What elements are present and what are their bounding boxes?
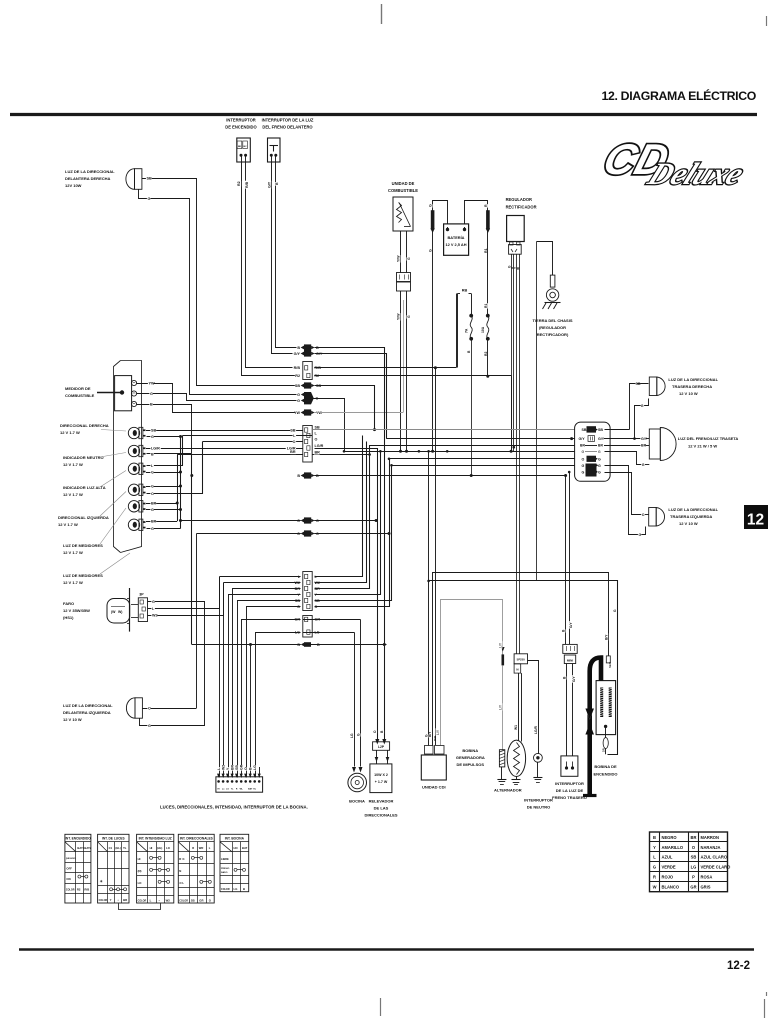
bracket joining HL columns	[119, 904, 161, 910]
wire G to coil ground	[429, 581, 618, 755]
svg-text:TRASERA IZQUIERDA: TRASERA IZQUIERDA	[670, 514, 712, 519]
svg-text:G: G	[151, 527, 154, 531]
wire O lamp4	[147, 442, 203, 494]
svg-text:B: B	[653, 835, 656, 840]
svg-text:(W: (W	[111, 610, 116, 614]
fuse F1 7A	[469, 314, 473, 318]
wire O row right	[314, 533, 389, 535]
wire B bottom row	[192, 644, 301, 646]
svg-text:INT. BOCINA: INT. BOCINA	[225, 837, 245, 841]
connector row B mid	[297, 473, 300, 478]
svg-text:G: G	[150, 392, 153, 396]
svg-text:DELANTERA IZQUIERDA: DELANTERA IZQUIERDA	[63, 710, 111, 715]
svg-text:G: G	[425, 734, 429, 737]
svg-text:R: R	[653, 875, 656, 880]
wire L faro	[148, 577, 220, 609]
svg-text:Y/W: Y/W	[397, 313, 401, 320]
alternator	[507, 740, 525, 776]
wire G meter	[137, 394, 297, 401]
wire O front left lamp	[142, 708, 196, 710]
svg-text:G: G	[653, 865, 656, 870]
svg-text:DEL FRENO DELANTERO: DEL FRENO DELANTERO	[262, 125, 313, 130]
wire LG/R lamp2	[146, 448, 303, 450]
wire Y row	[229, 595, 301, 778]
table int. de luces	[98, 834, 129, 903]
svg-text:FARO: FARO	[63, 601, 74, 606]
svg-text:G: G	[598, 457, 601, 461]
svg-text:W2: W2	[166, 898, 171, 902]
svg-text:G/Y: G/Y	[294, 352, 301, 356]
svg-text:+ 1.7 W: + 1.7 W	[375, 780, 388, 784]
alternator ground	[516, 776, 518, 779]
svg-text:RELEVADOR: RELEVADOR	[369, 799, 394, 804]
svg-text:DE NEUTRO: DE NEUTRO	[527, 805, 551, 810]
mini connector	[563, 644, 577, 653]
svg-text:GR: GR	[690, 885, 696, 890]
svg-text:BAT2: BAT2	[84, 846, 91, 850]
svg-text:12: 12	[747, 512, 764, 529]
wire Y/W fuel to G bus	[400, 291, 402, 451]
svg-text:LG: LG	[691, 865, 697, 870]
connector GR LG white	[303, 616, 312, 638]
wire G lamp5	[146, 509, 181, 511]
svg-text:O: O	[642, 513, 645, 517]
coil connector small	[606, 656, 610, 663]
svg-text:G: G	[429, 249, 433, 252]
footer rule	[19, 948, 754, 950]
wire battery negative to fuse G	[433, 201, 448, 224]
svg-text:L2P: L2P	[378, 745, 385, 749]
ignition coil bobina de encendido	[596, 681, 616, 735]
svg-text:VERDE: VERDE	[662, 865, 676, 870]
svg-text:AZUL: AZUL	[662, 855, 673, 860]
svg-text:W: W	[653, 885, 657, 890]
wire O row left to front left lamp	[197, 533, 301, 535]
svg-text:INDICADOR LUZ ALTA: INDICADOR LUZ ALTA	[63, 485, 106, 490]
svg-text:G/Y: G/Y	[641, 437, 648, 441]
svg-text:BR: BR	[290, 450, 296, 454]
svg-text:12 V 1.7 W: 12 V 1.7 W	[63, 550, 83, 555]
wire B row branch to connector	[249, 643, 252, 646]
wire regulator pin2 down	[513, 254, 515, 451]
svg-text:G: G	[641, 404, 644, 408]
svg-text:(REGULADOR: (REGULADOR	[539, 325, 566, 330]
svg-text:MEDIDOR DE: MEDIDOR DE	[65, 386, 91, 391]
svg-text:B: B	[151, 452, 154, 456]
svg-text:NADO: NADO	[221, 871, 228, 874]
svg-text:G/Y: G/Y	[569, 622, 573, 628]
BR collector vertical	[177, 455, 179, 522]
wire G row left to collector	[181, 520, 301, 522]
lamp tail luz del freno luz trasera	[649, 429, 660, 459]
bundle vertical v4 Y	[315, 452, 381, 595]
bundle vertical v7 O headlight	[315, 459, 390, 607]
bus G/Y to tail block	[386, 438, 574, 440]
svg-text:R2: R2	[295, 374, 300, 378]
wire L lamp3	[147, 436, 183, 466]
wire B meter	[137, 405, 192, 454]
svg-text:G: G	[148, 197, 151, 201]
headlight bulb faro	[107, 599, 130, 624]
svg-text:BC: BC	[244, 146, 248, 148]
wire B lamp2	[147, 453, 192, 455]
svg-text:BOBINA: BOBINA	[462, 748, 478, 753]
switch SW2 freno delantero	[268, 138, 281, 162]
wire SB rear right	[605, 429, 630, 431]
svg-text:DIRECCIONAL IZQUIERDA: DIRECCIONAL IZQUIERDA	[58, 515, 109, 520]
svg-text:INT. DIRECCIONALES: INT. DIRECCIONALES	[180, 837, 213, 841]
svg-text:LG/R: LG/R	[151, 446, 160, 450]
component bateria	[444, 224, 469, 255]
wire regulator pin3 down to 5P250	[516, 254, 518, 654]
svg-text:COLOR: COLOR	[99, 899, 108, 902]
svg-text:SB: SB	[691, 855, 697, 860]
svg-text:B: B	[150, 403, 153, 407]
wire B vertical to B row	[191, 454, 193, 645]
switch SW1 interruptor de encendido	[237, 138, 251, 162]
svg-text:W1: W1	[514, 725, 518, 730]
svg-text:LUZ DE LA DIRECCIONAL: LUZ DE LA DIRECCIONAL	[668, 377, 718, 382]
svg-text:10W X 2: 10W X 2	[374, 773, 388, 777]
svg-text:G: G	[148, 724, 151, 728]
svg-text:WR: WR	[199, 846, 204, 850]
wire BR lamp5	[146, 503, 177, 505]
bracket RB fuse feed	[462, 288, 468, 293]
svg-text:INT. DE LUCES: INT. DE LUCES	[102, 837, 125, 841]
svg-text:VERDE CLARO: VERDE CLARO	[701, 865, 732, 870]
svg-text:BLANCO: BLANCO	[662, 885, 680, 890]
wire SB lamp to box	[146, 430, 303, 432]
svg-text:R/B: R/B	[433, 735, 437, 741]
table int. encendido	[65, 834, 91, 903]
svg-text:G: G	[151, 471, 154, 475]
svg-text:INTERRUPTOR: INTERRUPTOR	[524, 798, 553, 803]
fuse link R (black bar)	[486, 210, 490, 229]
svg-text:(HL): (HL)	[157, 846, 162, 850]
svg-text:W2: W2	[221, 765, 225, 770]
wire W1 alternator	[518, 673, 520, 740]
svg-text:GRIS: GRIS	[701, 885, 711, 890]
svg-text:LUZ DE LA DIRECCIONAL: LUZ DE LA DIRECCIONAL	[668, 507, 718, 512]
wire B mini to switch	[566, 664, 568, 756]
wire G/Y to mini connector	[569, 472, 571, 644]
svg-text:B: B	[297, 346, 300, 350]
wire L row to box	[183, 435, 303, 437]
wire label R2	[237, 181, 241, 187]
wire G front left lamp	[140, 719, 205, 726]
wire B to rear down	[315, 348, 385, 645]
footer crop mark right	[764, 999, 766, 1018]
svg-text:12V 10W: 12V 10W	[65, 183, 82, 188]
wire SB row headlight	[238, 601, 301, 778]
block row G2	[581, 463, 584, 467]
meter pin G	[131, 391, 136, 396]
svg-text:O: O	[373, 730, 377, 733]
wire BR lamp6	[146, 521, 177, 523]
wire CDI B/Y to coil	[433, 573, 609, 746]
svg-text:LG: LG	[234, 887, 238, 891]
svg-text:G: G	[151, 435, 154, 439]
svg-text:12 V 35W/35W: 12 V 35W/35W	[63, 608, 90, 613]
svg-text:YW: YW	[149, 382, 156, 386]
wire LG/R to neutral switch	[528, 661, 539, 754]
svg-text:BR: BR	[123, 898, 127, 902]
bus O to tail block	[389, 458, 575, 460]
indicator lamp L6 luz de medidores 1	[128, 501, 139, 512]
svg-text:12 V 1.7 W: 12 V 1.7 W	[63, 462, 83, 467]
svg-text:HO: HO	[234, 846, 238, 850]
svg-text:SB: SB	[191, 898, 195, 902]
svg-text:AZUL CLARO: AZUL CLARO	[701, 855, 728, 860]
relay relevador de las direccionales	[370, 764, 392, 793]
wire label B	[274, 182, 278, 185]
svg-text:COLOR: COLOR	[138, 899, 147, 902]
svg-text:REGULADOR: REGULADOR	[506, 197, 532, 202]
svg-text:W2: W2	[152, 614, 158, 618]
wire B to mini connector	[565, 476, 567, 645]
svg-text:G: G	[598, 470, 601, 474]
connector row O mid	[297, 531, 300, 536]
page crop mark top right corner	[766, 16, 768, 26]
svg-text:BR: BR	[598, 443, 603, 447]
svg-text:C1: C1	[109, 846, 113, 850]
svg-text:BR: BR	[315, 451, 321, 455]
wire G merged right	[314, 399, 345, 452]
table int. bocina	[220, 834, 249, 891]
wire brake switch to connector G/Y	[272, 163, 297, 354]
indicator lamp L3 indicador neutro	[128, 445, 139, 456]
bundle vertical v3 BR	[315, 455, 370, 589]
svg-text:HI: HI	[150, 846, 153, 850]
wire B from 7A fuse down	[471, 339, 473, 476]
svg-text:DE LA LUZ DE: DE LA LUZ DE	[556, 788, 584, 793]
svg-text:O: O	[582, 457, 585, 461]
svg-text:R ⇒: R ⇒	[179, 857, 185, 861]
wire label G/Y	[267, 181, 271, 189]
svg-text:LG/R: LG/R	[315, 444, 324, 448]
svg-text:NEGRO: NEGRO	[662, 835, 678, 840]
svg-text:BOCINA: BOCINA	[349, 799, 365, 804]
wire G rear left	[605, 466, 646, 535]
wire G front right turn	[139, 190, 297, 395]
wire G lamp6	[147, 528, 181, 530]
indicator lamp L4 indicador luz alta	[128, 463, 139, 474]
pulse generator bobina generadora de impulsos	[499, 750, 504, 767]
page crop mark top center	[381, 4, 383, 24]
svg-text:INTERRUPTOR: INTERRUPTOR	[555, 781, 584, 786]
svg-text:R/B: R/B	[315, 366, 322, 370]
svg-text:B/Y: B/Y	[604, 634, 608, 640]
svg-text:12 V 10 W: 12 V 10 W	[679, 521, 698, 526]
svg-text:L: L	[150, 898, 152, 902]
svg-text:GR: GR	[240, 764, 244, 770]
svg-text:RB: RB	[462, 289, 468, 293]
svg-text:ENCENDIDO: ENCENDIDO	[593, 772, 617, 777]
svg-text:YW: YW	[294, 411, 300, 415]
svg-text:INTERRUPTOR: INTERRUPTOR	[226, 118, 256, 123]
connector block headlight white	[303, 572, 312, 611]
svg-text:INTERRUPTOR DE LA LUZ: INTERRUPTOR DE LA LUZ	[262, 118, 314, 123]
wire G tail	[605, 452, 642, 465]
wire G fuel unit down	[406, 231, 408, 273]
svg-text:10A: 10A	[481, 326, 485, 333]
wire G/Y to rear down	[315, 354, 387, 439]
wire O row to box	[203, 441, 303, 443]
svg-text:12 V 1.7 W: 12 V 1.7 W	[58, 522, 78, 527]
wire LG row	[303, 632, 355, 634]
svg-text:LUCES, DIRECCIONALES, INTENSID: LUCES, DIRECCIONALES, INTENSIDAD, INTERR…	[160, 805, 308, 810]
indicator lamp L2 direccional derecha	[128, 427, 139, 438]
bundle vertical v6 SB2	[315, 466, 392, 601]
svg-text:Y/W: Y/W	[397, 255, 401, 262]
svg-text:LG: LG	[350, 733, 354, 738]
connector row G mid	[297, 518, 300, 523]
fuel unit sender	[393, 197, 413, 231]
wire rows to handlebar connector staircase	[220, 576, 301, 578]
connector row B bottom	[297, 642, 300, 647]
svg-text:NARANJA: NARANJA	[701, 845, 721, 850]
color code legend table	[650, 832, 728, 892]
svg-text:R2: R2	[237, 181, 241, 186]
svg-text:G: G	[639, 533, 642, 537]
svg-text:SB: SB	[295, 384, 300, 388]
svg-text:SB: SB	[315, 426, 320, 430]
chapter tab 12	[744, 505, 768, 529]
svg-text:SE36: SE36	[608, 661, 612, 668]
svg-text:O: O	[151, 492, 154, 496]
wire O front left lamp vertical	[196, 534, 198, 709]
bundle vertical v5 LG/R to relay	[315, 449, 378, 742]
svg-text:LUZ DEL FRENO/LUZ TRASETA: LUZ DEL FRENO/LUZ TRASETA	[678, 436, 739, 441]
svg-text:BAT: BAT	[242, 846, 248, 850]
svg-text:G: G	[582, 464, 585, 468]
svg-text:HI: HI	[138, 857, 141, 861]
svg-text:R1: R1	[484, 304, 488, 308]
wire Y/W fuel unit down	[400, 231, 402, 273]
svg-text:SB: SB	[582, 428, 587, 432]
indicator lamp L5 direccional izquierda	[128, 484, 139, 495]
block row SB	[581, 428, 587, 432]
svg-text:G: G	[297, 393, 300, 397]
svg-text:G: G	[582, 470, 585, 474]
svg-text:G/Y: G/Y	[267, 181, 271, 188]
svg-text:(HS1): (HS1)	[63, 615, 74, 620]
fuse link G (black bar)	[431, 210, 435, 229]
svg-text:BOBINA DE: BOBINA DE	[594, 764, 617, 769]
svg-text:BATERÍA: BATERÍA	[447, 235, 464, 240]
lamp L1 direccional delantera derecha	[126, 169, 135, 190]
svg-text:W): W)	[118, 610, 122, 614]
wire R1 down to 10A fuse	[487, 247, 489, 316]
svg-text:ROJO: ROJO	[662, 875, 674, 880]
svg-text:RECTIFICADOR: RECTIFICADOR	[506, 205, 537, 210]
wire W2 faro	[148, 583, 224, 616]
block row G	[581, 449, 584, 453]
svg-text:BR: BR	[641, 443, 647, 447]
svg-text:DE LAS: DE LAS	[374, 806, 389, 811]
svg-text:LO: LO	[166, 846, 170, 850]
svg-text:G: G	[151, 484, 154, 488]
svg-text:UNIDAD CDI: UNIDAD CDI	[422, 785, 446, 790]
G collector vertical	[180, 437, 182, 529]
bulb holder bar	[129, 588, 131, 632]
svg-text:PRESIO: PRESIO	[221, 868, 230, 870]
svg-text:BR: BR	[230, 764, 234, 770]
svg-text:GENERADORA: GENERADORA	[456, 755, 485, 760]
5P250 connector	[514, 654, 527, 664]
svg-text:G/Y: G/Y	[598, 437, 605, 441]
svg-text:R/B: R/B	[294, 366, 301, 370]
svg-text:G: G	[297, 399, 300, 403]
lamp rear right direccional trasera derecha	[649, 377, 657, 396]
svg-text:B: B	[275, 182, 279, 185]
svg-text:G: G	[582, 450, 585, 454]
svg-text:DIRECCIONAL DERECHA: DIRECCIONAL DERECHA	[60, 423, 109, 428]
wire R2 from fuse to row	[487, 339, 489, 377]
svg-text:5P250: 5P250	[517, 658, 526, 662]
svg-text:•: •	[159, 898, 160, 902]
wire G rear right	[635, 399, 649, 439]
svg-text:SB: SB	[147, 177, 153, 181]
svg-text:INDICADOR NEUTRO: INDICADOR NEUTRO	[63, 455, 104, 460]
connector row YW	[295, 410, 301, 415]
wire BR tail	[604, 445, 641, 447]
svg-text:L/Y: L/Y	[436, 729, 440, 735]
svg-text:FRENO TRASERO: FRENO TRASERO	[552, 795, 587, 800]
svg-text:P: P	[692, 875, 695, 880]
wire GR row	[303, 619, 361, 621]
connector pair R/B R2 ignition	[303, 362, 312, 380]
wire BR row long bus	[177, 454, 303, 456]
svg-text:TRASERA DERECHA: TRASERA DERECHA	[672, 384, 712, 389]
wire G/Y tail	[604, 438, 641, 440]
wire G faro	[148, 602, 205, 726]
wire BR row headlight	[233, 589, 301, 778]
svg-text:12 V 1.7 W: 12 V 1.7 W	[63, 492, 83, 497]
svg-text:R/B: R/B	[84, 887, 89, 891]
svg-text:RECTIFICADOR): RECTIFICADOR)	[537, 332, 569, 337]
svg-text:R2: R2	[77, 887, 81, 891]
bus G long to tail block	[344, 451, 575, 453]
wire G lamp4	[146, 486, 181, 488]
wire regulator pin4 down to 5P250	[519, 254, 521, 654]
table int. intensidad luz	[137, 834, 174, 903]
svg-text:BAT: BAT	[248, 788, 253, 791]
CDI connector pins	[425, 746, 434, 755]
high tension lead thick	[590, 658, 601, 796]
svg-text:G: G	[151, 508, 154, 512]
wire SB front right turn	[142, 179, 297, 386]
wire G/Y mini to switch	[572, 664, 574, 756]
lamp L8 direccional delantera izquierda	[126, 698, 135, 718]
svg-text:UNIDAD DE: UNIDAD DE	[392, 181, 415, 186]
svg-text:INT. ENCENDIDO: INT. ENCENDIDO	[65, 837, 91, 841]
svg-text:G/Y: G/Y	[579, 437, 586, 441]
svg-text:SB: SB	[598, 428, 603, 432]
svg-text:LG/R: LG/R	[534, 726, 538, 734]
svg-text:SB: SB	[151, 428, 156, 432]
svg-text:(SEGURO): (SEGURO)	[66, 858, 76, 860]
svg-text:BR: BR	[151, 501, 157, 505]
connector row B front brake	[297, 345, 300, 350]
svg-text:BR: BR	[580, 443, 585, 447]
svg-text:TL: TL	[123, 846, 127, 850]
wire to chassis ground	[537, 242, 553, 276]
svg-text:LUZ DE MEDIDORES: LUZ DE MEDIDORES	[63, 573, 103, 578]
spark plug	[603, 738, 608, 749]
svg-text:G: G	[598, 464, 601, 468]
svg-text:LUZ DE LA DIRECCIONAL: LUZ DE LA DIRECCIONAL	[65, 169, 115, 174]
